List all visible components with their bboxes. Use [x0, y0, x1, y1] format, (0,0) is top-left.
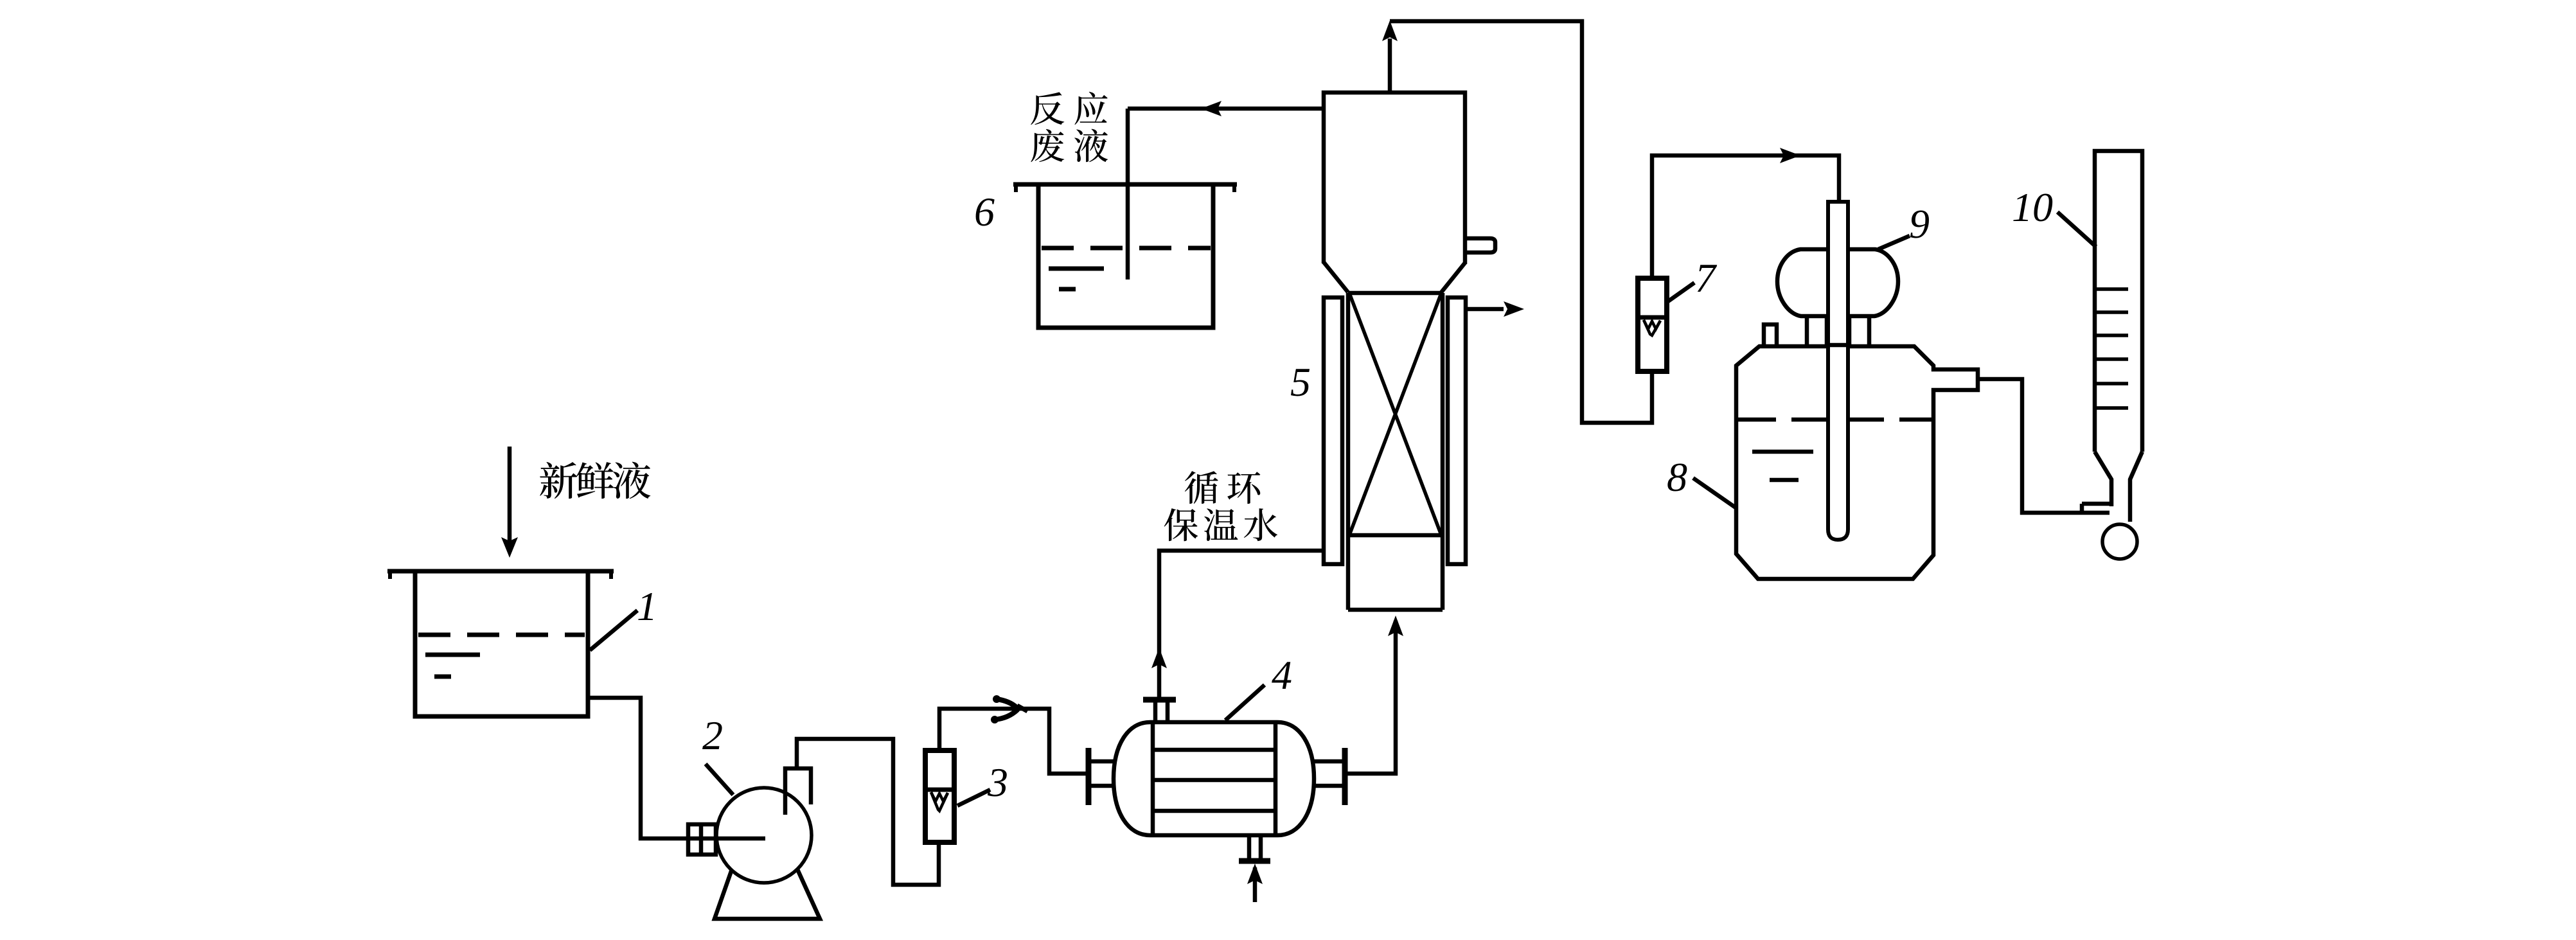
svg-text:2: 2 — [702, 713, 723, 758]
svg-text:6: 6 — [974, 189, 995, 235]
svg-text:5: 5 — [1290, 359, 1311, 405]
svg-text:4: 4 — [1272, 652, 1292, 698]
svg-text:1: 1 — [637, 583, 657, 629]
svg-text:3: 3 — [987, 759, 1008, 805]
svg-text:7: 7 — [1695, 255, 1718, 301]
svg-text:8: 8 — [1667, 454, 1687, 500]
svg-text:10: 10 — [2012, 184, 2053, 230]
svg-text:9: 9 — [1909, 201, 1930, 247]
